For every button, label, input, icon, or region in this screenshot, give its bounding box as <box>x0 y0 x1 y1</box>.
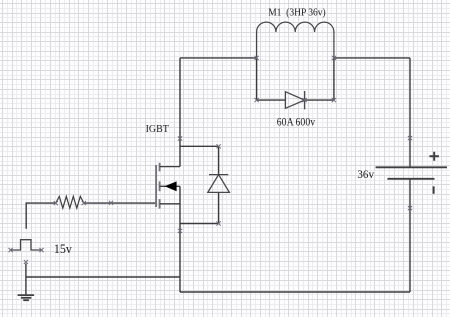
diode D1 60A 600v triangle <box>285 92 304 109</box>
resistor R1 zigzag <box>56 196 84 208</box>
wire freewheel diode column bottom <box>218 192 220 223</box>
wire motor diode row left <box>257 99 286 101</box>
node pulse right <box>39 248 43 252</box>
node resistor left <box>54 201 58 205</box>
node collector <box>178 136 182 140</box>
node motor left top <box>255 56 259 60</box>
motor M1 coil <box>257 22 334 58</box>
node battery bottom <box>408 206 412 210</box>
IGBT gate bar <box>155 165 157 207</box>
wire battery top drop <box>409 58 411 167</box>
battery V1 short plate <box>387 178 434 180</box>
node pulse left <box>9 248 13 252</box>
wire motor loop left vertical (rail to diode row) <box>256 58 258 100</box>
node gate wire joint <box>109 201 113 205</box>
IGBT body stub <box>160 185 180 187</box>
battery plus sign <box>429 152 439 161</box>
wire battery bottom drop <box>409 179 411 292</box>
diode D2 freewheel cathode bar <box>209 174 228 176</box>
node diode apex <box>303 98 307 102</box>
wire drain column <box>179 58 181 167</box>
ground <box>18 295 34 300</box>
IGBT channel tick middle <box>159 181 161 191</box>
diode D2 freewheel triangle <box>208 175 230 193</box>
IGBT channel tick top <box>159 163 161 172</box>
IGBT channel tick bottom <box>159 199 161 209</box>
diode D1 cathode bar <box>304 91 306 109</box>
node motor right top <box>332 56 336 60</box>
IGBT body arrow <box>165 181 177 191</box>
node emitter <box>178 229 182 233</box>
wire bottom rail left <box>26 276 180 278</box>
wire motor loop right vertical (rail to diode row) <box>333 58 335 100</box>
node freewheel bottom <box>217 221 221 225</box>
node motor diode right <box>332 98 336 102</box>
wire top rail right (motor node to battery) <box>334 57 410 59</box>
IGBT source stub <box>160 203 180 205</box>
node battery top <box>408 136 412 140</box>
wire ground drop <box>25 264 27 296</box>
svg-text:36v: 36v <box>357 167 374 181</box>
svg-text:15v: 15v <box>54 241 72 256</box>
wire gate lead <box>26 203 156 229</box>
wire motor diode row right <box>305 99 334 101</box>
node freewheel top <box>217 144 221 148</box>
svg-text:M1 (3HP 36v): M1 (3HP 36v) <box>268 7 326 19</box>
wire freewheel diode column top <box>218 146 220 174</box>
node resistor right <box>82 201 86 205</box>
pulse source V2 glyph <box>11 240 42 250</box>
node pulse bottom <box>24 260 28 264</box>
IGBT drain stub <box>160 166 180 168</box>
wire collector-diode jumper <box>180 145 219 147</box>
battery V1 long plate <box>376 166 447 168</box>
svg-text:60A 600v: 60A 600v <box>277 116 316 128</box>
wire emitter column <box>179 186 181 292</box>
battery minus sign <box>433 186 435 194</box>
wire emitter-diode jumper <box>180 223 219 225</box>
node motor diode left <box>255 98 259 102</box>
svg-text:IGBT: IGBT <box>146 123 169 135</box>
wire bottom rail right <box>180 291 410 293</box>
wire top rail left (collector to motor node) <box>180 57 257 59</box>
